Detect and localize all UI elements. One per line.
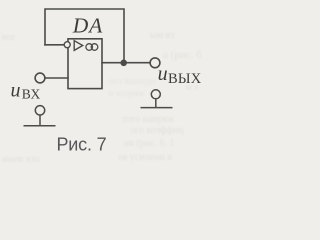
infinite gain symbol inside DA — [86, 44, 98, 51]
svg-text:ого коэффиц: ого коэффиц — [130, 125, 184, 136]
svg-text:u: u — [11, 79, 21, 101]
bleed-through faint text (back of page) — [2, 30, 202, 165]
svg-text:того напряж: того напряж — [122, 114, 174, 125]
label u_BX (input voltage) — [11, 79, 41, 101]
svg-text:м напряж: м напряж — [108, 88, 145, 98]
svg-text:ого выходн: ого выходн — [108, 76, 156, 87]
wire feedback loop: left vertical, top, right vertical — [45, 9, 124, 63]
svg-text:ВЫХ: ВЫХ — [168, 71, 202, 87]
ground left (common terminal) — [24, 106, 56, 126]
wire output from box to terminal — [102, 62, 150, 64]
svg-text:оя усилени я: оя усилени я — [118, 152, 172, 163]
wire input from terminal to box — [45, 77, 68, 79]
ground right (common terminal) — [141, 90, 173, 108]
svg-text:ия (рис. 6. 1: ия (рис. 6. 1 — [124, 138, 175, 149]
wire feedback to inverting input pin — [45, 44, 64, 46]
amplifier triangle symbol inside DA — [74, 41, 83, 51]
svg-text:Рис. 7: Рис. 7 — [57, 135, 107, 155]
background paper — [0, 0, 203, 168]
svg-text:ВХ: ВХ — [22, 87, 41, 102]
svg-text:а (рис. б: а (рис. б — [163, 49, 202, 61]
svg-text:вог: вог — [2, 32, 16, 43]
terminal input u_BX circle — [35, 73, 45, 83]
svg-text:DA: DA — [72, 14, 103, 38]
svg-text:u: u — [158, 63, 168, 85]
pin inverting input circle of DA — [64, 42, 70, 48]
terminal output u_BYX circle — [150, 58, 160, 68]
op-amp DA body (rectangle) — [68, 39, 102, 89]
svg-text:ым вх: ым вх — [150, 30, 175, 41]
node output junction dot — [120, 60, 127, 67]
svg-text:нием вхо: нием вхо — [2, 154, 40, 165]
label u_BYX (output voltage) — [158, 63, 202, 87]
